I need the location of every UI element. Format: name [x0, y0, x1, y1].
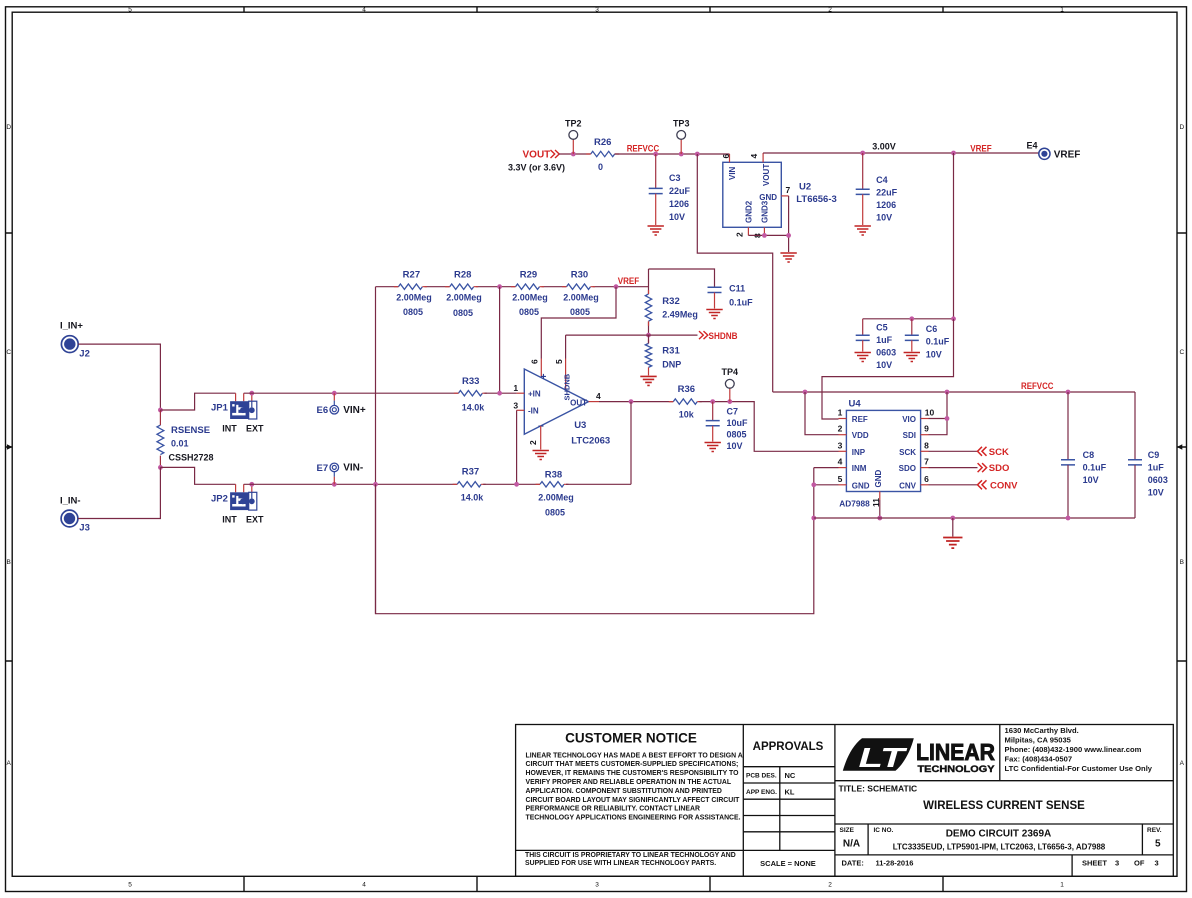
svg-text:VDD: VDD: [852, 431, 869, 440]
wire R36 to INP corner: [699, 402, 838, 452]
node VREF junction: [614, 284, 619, 289]
svg-text:APP ENG.: APP ENG.: [746, 789, 777, 796]
pin names U4 left: [852, 415, 870, 490]
wire ground stub: [952, 518, 954, 537]
connector J2: [61, 336, 78, 353]
svg-text:E4: E4: [1027, 141, 1038, 151]
wire J3 to RSENSE: [78, 467, 160, 518]
node VREF drop junction: [951, 151, 956, 156]
resistor R31: [645, 340, 651, 368]
svg-text:SDI: SDI: [903, 431, 916, 440]
capacitor C3: [649, 188, 663, 193]
pin 4 VOUT stub: [762, 153, 764, 162]
svg-text:GND2: GND2: [745, 200, 754, 223]
wire VREF to U4 REF: [822, 319, 954, 419]
node TP2 junction: [571, 152, 576, 157]
capacitor C9: [1128, 460, 1142, 465]
svg-text:2: 2: [828, 7, 832, 14]
svg-text:A: A: [7, 760, 12, 767]
pin 2 V- stub: [540, 426, 542, 450]
node feedback junction: [629, 399, 634, 404]
ground below U4 rail: [943, 538, 962, 549]
wire C3 to ground: [655, 194, 657, 225]
wire SCK: [929, 450, 978, 452]
test point TP4: [725, 379, 734, 401]
node C6 junction: [909, 316, 914, 321]
svg-text:SDO: SDO: [899, 464, 916, 473]
wire SHDNB to pin 5: [566, 335, 649, 358]
svg-text:VREF: VREF: [618, 276, 640, 286]
node divider mid junction: [497, 284, 502, 289]
svg-text:PCB DES.: PCB DES.: [746, 773, 777, 780]
svg-text:TP3: TP3: [673, 119, 690, 129]
wire C5 stub: [862, 319, 864, 335]
pin names U4 right: [899, 415, 917, 490]
wire VREF node to op-amp V+: [541, 287, 616, 359]
svg-text:2.00Meg: 2.00Meg: [563, 293, 599, 303]
svg-text:VOUT: VOUT: [762, 164, 771, 186]
svg-text:INP: INP: [852, 448, 866, 457]
node pin 11 junction: [877, 516, 882, 521]
svg-text:LTC Confidential-For Customer: LTC Confidential-For Customer Use Only: [1005, 764, 1153, 773]
svg-text:VOUT: VOUT: [523, 150, 551, 161]
svg-text:4: 4: [362, 7, 366, 14]
svg-text:GND: GND: [852, 481, 870, 490]
wire C7 to ground: [712, 426, 714, 442]
svg-text:2: 2: [735, 232, 745, 237]
wire R31 to ground: [648, 367, 650, 375]
svg-text:REFVCC: REFVCC: [1021, 381, 1054, 391]
svg-text:CONV: CONV: [990, 480, 1018, 491]
svg-text:4: 4: [749, 154, 759, 159]
svg-text:CIRCUIT BOARD LAYOUT MAY SIGNI: CIRCUIT BOARD LAYOUT MAY SIGNIFICANTLY A…: [526, 797, 741, 804]
svg-text:10: 10: [925, 408, 935, 418]
capacitor C8: [1061, 460, 1075, 465]
ground below C6: [904, 353, 920, 362]
op-amp regulator U2 box: [723, 162, 782, 227]
pin 7 SDO stub: [921, 467, 929, 469]
node E7 junction: [332, 482, 337, 487]
svg-text:22uF: 22uF: [669, 186, 691, 196]
svg-text:JP1: JP1: [211, 403, 229, 414]
svg-text:VREF: VREF: [1054, 150, 1081, 161]
pin 3 stub: [517, 409, 525, 411]
pin 1 stub: [517, 392, 525, 394]
pin 2 VDD stub: [839, 434, 847, 436]
svg-text:C4: C4: [876, 175, 888, 185]
svg-text:CNV: CNV: [899, 481, 917, 490]
svg-text:R30: R30: [571, 270, 588, 281]
svg-text:R27: R27: [403, 270, 420, 281]
label C4 values: [876, 175, 898, 223]
wire C11 top link: [649, 269, 715, 287]
node VDD junction: [803, 390, 808, 395]
pin 10 VIO stub: [921, 418, 929, 420]
svg-text:WIRELESS CURRENT SENSE: WIRELESS CURRENT SENSE: [923, 800, 1085, 812]
node GND2/GND3 junction: [762, 233, 767, 238]
svg-text:9: 9: [924, 424, 929, 434]
pin 11 stub: [879, 492, 881, 501]
svg-text:0805: 0805: [453, 308, 473, 318]
svg-text:1206: 1206: [876, 200, 896, 210]
svg-text:U4: U4: [849, 399, 862, 410]
node GND pin junction: [786, 233, 791, 238]
wire U4 bottom rail: [814, 517, 1135, 519]
svg-text:DATE:: DATE:: [842, 859, 864, 868]
terminal E4: [1039, 148, 1050, 159]
zone ref arrows: [7, 444, 13, 450]
svg-text:EXT: EXT: [246, 424, 264, 434]
svg-text:J3: J3: [79, 523, 90, 534]
svg-text:Milpitas, CA 95035: Milpitas, CA 95035: [1005, 736, 1072, 745]
svg-text:R29: R29: [520, 270, 537, 281]
svg-text:JP2: JP2: [211, 494, 228, 505]
svg-text:0805: 0805: [403, 307, 423, 317]
ground below U2: [780, 253, 796, 262]
wire feedback vertical R38: [630, 402, 632, 485]
wire pin 11 to rail: [879, 500, 881, 518]
pin 4 OUT stub: [589, 401, 600, 403]
svg-text:SIZE: SIZE: [840, 827, 855, 834]
wire C3 stub: [655, 154, 657, 188]
ADC U4 box: [846, 410, 920, 491]
svg-text:SCK: SCK: [989, 447, 1009, 458]
svg-text:14.0k: 14.0k: [462, 403, 486, 413]
wire C8 stub: [1067, 392, 1069, 459]
svg-text:1: 1: [1060, 882, 1064, 889]
ground below C4: [855, 226, 871, 235]
svg-text:C: C: [6, 349, 11, 356]
approvals: [746, 741, 824, 868]
svg-text:C11: C11: [729, 284, 745, 294]
capacitor C7: [706, 421, 720, 426]
svg-text:2.00Meg: 2.00Meg: [512, 293, 548, 303]
svg-text:3: 3: [595, 7, 599, 14]
svg-text:GND: GND: [874, 470, 883, 488]
svg-text:10uF: 10uF: [727, 418, 749, 428]
svg-text:RSENSE: RSENSE: [171, 425, 210, 436]
node REFVCC drop junction: [695, 152, 700, 157]
wire JP2 to R37: [244, 483, 458, 485]
svg-text:5: 5: [1155, 839, 1161, 850]
svg-text:LINEAR TECHNOLOGY HAS MADE A B: LINEAR TECHNOLOGY HAS MADE A BEST EFFORT…: [526, 752, 743, 759]
svg-text:SHEET: SHEET: [1082, 859, 1107, 868]
title block: [516, 725, 1174, 877]
pin 5 GND stub: [839, 484, 847, 486]
svg-text:0.1uF: 0.1uF: [1083, 463, 1107, 473]
svg-text:C7: C7: [727, 407, 739, 417]
svg-text:TP4: TP4: [722, 367, 739, 377]
wire C4 to ground: [862, 194, 864, 225]
node TP3 junction: [679, 152, 684, 157]
svg-text:3.00V: 3.00V: [872, 142, 896, 152]
svg-text:VERIFY PROPER AND RELIABLE OPE: VERIFY PROPER AND RELIABLE OPERATION IN …: [526, 779, 732, 786]
pin 1 REF stub: [839, 418, 847, 420]
svg-text:CUSTOMER NOTICE: CUSTOMER NOTICE: [565, 731, 697, 746]
op-amp U3: [524, 369, 588, 434]
wire C4 stub: [862, 153, 864, 189]
svg-text:1: 1: [1060, 7, 1064, 14]
svg-text:10V: 10V: [727, 441, 743, 451]
capacitor C4: [856, 189, 870, 194]
jumper JP2: [230, 492, 257, 510]
wire REFVCC down to U4 rail: [697, 154, 772, 392]
svg-text:3: 3: [513, 400, 518, 410]
resistor R38: [536, 482, 569, 487]
wire C11 to ground: [714, 293, 716, 309]
svg-text:10V: 10V: [669, 212, 685, 222]
capacitor C11: [708, 287, 722, 292]
svg-text:1: 1: [513, 383, 518, 393]
svg-text:REV.: REV.: [1147, 827, 1162, 834]
resistor R27: [394, 284, 427, 289]
svg-text:GND3: GND3: [761, 200, 770, 223]
test point TP2: [569, 131, 578, 155]
wire C9 branch: [1134, 392, 1136, 459]
wire C8 to rail: [1067, 465, 1069, 518]
pin 3 INP stub: [839, 450, 847, 452]
svg-text:U3: U3: [574, 420, 586, 431]
resistor R28: [445, 284, 478, 289]
resistor R26: [586, 151, 619, 156]
svg-text:VIN-: VIN-: [343, 463, 363, 474]
svg-text:LTC3335EUD, LTP5901-IPM, LTC2: LTC3335EUD, LTP5901-IPM, LTC2063, LT6656…: [893, 843, 1106, 852]
svg-text:IC NO.: IC NO.: [874, 827, 894, 834]
svg-text:6: 6: [721, 154, 731, 159]
ground below C3: [648, 226, 664, 235]
jumper JP2 pin stubs: [236, 484, 252, 492]
svg-text:5: 5: [128, 7, 132, 14]
svg-text:LT: LT: [859, 742, 909, 773]
wire R38 to feedback vertical: [566, 483, 631, 485]
node RSENSE top junction: [158, 408, 163, 413]
ground below C11: [706, 310, 722, 319]
U4 REFVCC rail: [773, 391, 1135, 393]
svg-text:+: +: [541, 372, 547, 383]
pin 2 GND2 stub: [747, 227, 749, 235]
svg-text:10k: 10k: [679, 410, 695, 420]
node divider left junction: [373, 482, 378, 487]
divider chain left vertical wire: [375, 287, 377, 614]
svg-text:NC: NC: [785, 771, 796, 780]
svg-text:2: 2: [828, 882, 832, 889]
svg-text:J2: J2: [79, 349, 90, 360]
node SHDNB junction: [646, 333, 651, 338]
svg-text:R33: R33: [462, 376, 479, 387]
svg-text:1uF: 1uF: [876, 335, 893, 345]
svg-text:R26: R26: [594, 137, 611, 148]
svg-text:B: B: [7, 559, 11, 566]
wire U2 ground bus: [748, 196, 788, 252]
label C11 values: [729, 284, 753, 308]
wire RSENSE leads: [159, 410, 161, 467]
svg-text:1uF: 1uF: [1148, 463, 1165, 473]
svg-text:2: 2: [528, 440, 538, 445]
wire VDD drop: [805, 392, 839, 435]
SDO arrow: [978, 463, 987, 472]
node -IN junction: [514, 482, 519, 487]
node GND-INM junction: [811, 482, 816, 487]
svg-text:A: A: [1180, 760, 1185, 767]
svg-text:2.00Meg: 2.00Meg: [446, 293, 482, 303]
node divider tap junction: [497, 391, 502, 396]
svg-text:10V: 10V: [876, 213, 892, 223]
svg-text:D: D: [1179, 124, 1184, 131]
svg-text:I_IN-: I_IN-: [60, 496, 81, 507]
wire SHDNB label stub: [649, 334, 698, 336]
svg-text:0805: 0805: [519, 307, 539, 317]
svg-text:INM: INM: [852, 464, 867, 473]
ground below op-amp: [533, 451, 549, 460]
VOUT arrow: [551, 150, 560, 158]
Linear Technology logo: [843, 738, 996, 775]
svg-text:TECHNOLOGY APPLICATIONS ENGINE: TECHNOLOGY APPLICATIONS ENGINEERING FOR …: [526, 815, 741, 822]
svg-text:2.00Meg: 2.00Meg: [538, 493, 574, 503]
wire C9 to rail: [1134, 465, 1136, 518]
pin 6 CNV stub: [921, 484, 929, 486]
wire -IN to feedback rail: [516, 410, 518, 484]
svg-text:R37: R37: [462, 467, 479, 478]
SCK arrow: [978, 447, 987, 456]
wire VREF down to C5/C6: [953, 153, 955, 319]
svg-text:R32: R32: [662, 296, 679, 307]
svg-text:E7: E7: [317, 463, 329, 474]
label C9 values: [1148, 450, 1168, 498]
svg-text:11-28-2016: 11-28-2016: [876, 859, 914, 868]
svg-text:DEMO CIRCUIT 2369A: DEMO CIRCUIT 2369A: [946, 829, 1052, 840]
svg-text:7: 7: [924, 457, 929, 467]
svg-text:4: 4: [838, 457, 843, 467]
svg-text:C6: C6: [926, 324, 938, 334]
svg-text:VIN: VIN: [728, 166, 737, 180]
svg-text:0.1uF: 0.1uF: [729, 298, 753, 308]
wire VIO/SDI drop: [929, 392, 948, 435]
svg-text:2.49Meg: 2.49Meg: [662, 310, 698, 320]
svg-text:0603: 0603: [876, 348, 896, 358]
svg-text:R38: R38: [545, 470, 562, 481]
node C3 junction: [653, 152, 658, 157]
svg-text:HOWEVER, IT REMAINS THE CUSTOM: HOWEVER, IT REMAINS THE CUSTOMER'S RESPO…: [526, 770, 740, 777]
terminal E7: [330, 463, 339, 484]
wire U2 VOUT to E4: [763, 152, 1038, 154]
svg-text:1630 McCarthy Blvd.: 1630 McCarthy Blvd.: [1005, 726, 1079, 735]
address block: [1005, 726, 1153, 773]
svg-text:0805: 0805: [727, 430, 747, 440]
wire C6 to ground: [911, 340, 913, 351]
svg-text:+IN: +IN: [528, 390, 541, 399]
svg-text:OF: OF: [1134, 859, 1145, 868]
node C4 junction: [860, 151, 865, 156]
wire R32 net vertical: [648, 269, 650, 335]
node C8 junction top: [1066, 390, 1071, 395]
wire SDO: [929, 467, 978, 469]
capacitor C6: [905, 335, 919, 340]
wire C5/C6 top rail: [863, 318, 954, 320]
svg-text:8: 8: [924, 440, 929, 450]
svg-text:VIN+: VIN+: [343, 405, 366, 416]
svg-text:R36: R36: [678, 384, 695, 395]
wire J2 to RSENSE: [78, 344, 160, 410]
svg-text:5: 5: [128, 882, 132, 889]
wire R37 to R38: [483, 483, 540, 485]
svg-text:SHDNB: SHDNB: [563, 373, 572, 400]
CONV arrow: [978, 480, 987, 489]
svg-text:OUT: OUT: [570, 399, 587, 408]
SHDNB arrow: [699, 331, 708, 339]
svg-text:SCALE = NONE: SCALE = NONE: [760, 859, 816, 868]
wire C5 to ground: [862, 340, 864, 351]
svg-text:C9: C9: [1148, 450, 1160, 460]
wire R26 to U2 VIN: [615, 153, 730, 155]
wire OUT to R36: [599, 401, 673, 403]
wire GND link: [814, 484, 839, 486]
node JP1 EXT junction: [249, 391, 254, 396]
resistor R32: [645, 290, 651, 326]
pin 8 SCK stub: [921, 450, 929, 452]
svg-text:7: 7: [786, 185, 791, 195]
pin 5 SHDNB stub: [565, 359, 567, 390]
svg-text:3: 3: [838, 440, 843, 450]
node bottom rail left junction: [811, 516, 816, 521]
svg-text:E6: E6: [317, 405, 329, 416]
pin 4 INM stub: [839, 467, 847, 469]
node VIO junction: [945, 390, 950, 395]
svg-text:SCK: SCK: [899, 448, 916, 457]
wire CNV: [929, 484, 978, 486]
svg-text:GND: GND: [759, 193, 777, 202]
svg-text:B: B: [1180, 559, 1184, 566]
svg-text:R31: R31: [662, 346, 680, 357]
svg-text:APPLICATION. COMPONENT SUBSTI: APPLICATION. COMPONENT SUBSTITUTION AND …: [526, 788, 722, 795]
svg-text:Phone: (408)432-1900 www.line: Phone: (408)432-1900 www.linear.com: [1005, 745, 1142, 754]
svg-text:Fax: (408)434-0507: Fax: (408)434-0507: [1005, 755, 1073, 764]
svg-text:6: 6: [530, 359, 540, 364]
svg-text:INT: INT: [222, 515, 237, 525]
svg-text:LT6656-3: LT6656-3: [796, 194, 836, 205]
wire INM ground loop: [376, 468, 814, 614]
svg-text:DNP: DNP: [662, 360, 681, 370]
node E6 junction: [332, 391, 337, 396]
svg-text:3.3V (or 3.6V): 3.3V (or 3.6V): [508, 163, 565, 173]
pin 6 VIN stub: [729, 154, 731, 162]
node SDI junction: [945, 416, 950, 421]
svg-text:LINEAR: LINEAR: [916, 739, 995, 765]
svg-text:0.1uF: 0.1uF: [926, 337, 950, 347]
resistor R33: [454, 391, 487, 396]
pin 9 SDI stub: [921, 434, 929, 436]
wire JP1 to R33: [244, 392, 459, 394]
node JP2 EXT junction: [249, 482, 254, 487]
svg-text:1: 1: [838, 408, 843, 418]
pin 6 V+ stub: [540, 359, 542, 378]
svg-text:0805: 0805: [545, 508, 565, 518]
svg-text:0: 0: [598, 162, 603, 172]
svg-text:5: 5: [554, 359, 564, 364]
test point TP3: [677, 131, 686, 155]
svg-text:TP2: TP2: [565, 119, 582, 129]
svg-text:10V: 10V: [926, 350, 942, 360]
label C5 values: [876, 323, 896, 371]
resistor R30: [562, 284, 595, 289]
svg-text:KL: KL: [785, 788, 795, 797]
svg-text:14.0k: 14.0k: [461, 493, 485, 503]
connector J3: [61, 510, 78, 527]
resistor R37: [453, 482, 486, 487]
svg-text:3: 3: [1115, 859, 1119, 868]
wire C6 stub: [911, 319, 913, 335]
svg-text:0.01: 0.01: [171, 439, 189, 449]
svg-text:SDO: SDO: [989, 463, 1010, 474]
